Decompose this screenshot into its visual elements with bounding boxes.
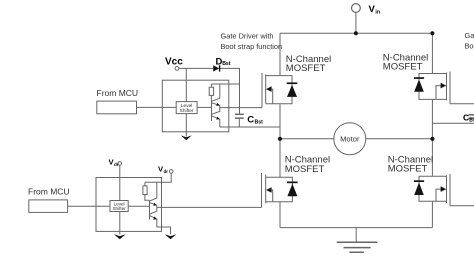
svg-text:Bst: Bst xyxy=(469,118,474,124)
svg-text:Vcc: Vcc xyxy=(165,57,183,68)
level shifter block bottom xyxy=(110,201,128,212)
wire M1 drain xyxy=(279,33,281,75)
MCU box bottom xyxy=(29,200,68,213)
svg-text:Gate Driver with: Gate Driver with xyxy=(465,31,474,40)
wire base bar Q3 Q4 xyxy=(149,200,151,219)
mosfet M4 low side right xyxy=(432,174,450,206)
ground dart driver2 right xyxy=(165,234,177,239)
arrow M3 body xyxy=(266,187,272,193)
svg-text:Shifter: Shifter xyxy=(180,108,194,114)
svg-text:From MCU: From MCU xyxy=(28,187,70,197)
wire M4 drain xyxy=(431,139,433,177)
wire MCU2 to level shifter xyxy=(68,205,110,207)
wire M4 gate lead xyxy=(450,205,474,207)
wire MCU1 to level shifter xyxy=(137,106,177,108)
mosfet M2 high side right xyxy=(432,72,450,104)
resistor R2 xyxy=(143,182,150,200)
wire M3 drain xyxy=(279,139,281,178)
motor xyxy=(334,123,366,155)
wire DBst cathode to bootstrap xyxy=(220,68,240,113)
wire M2 gate lead xyxy=(450,103,474,105)
svg-text:Boot strap function: Boot strap function xyxy=(221,42,283,51)
arrow Q1 emitter xyxy=(216,103,220,106)
transistor Q1 xyxy=(212,84,220,108)
junction switch node right xyxy=(430,137,434,141)
junction top right xyxy=(430,31,434,35)
diode DBst symbol xyxy=(213,65,220,71)
wire driver supply rail xyxy=(211,83,239,85)
level shifter block xyxy=(176,102,197,114)
wire driver 2 output to M3 gate xyxy=(157,206,262,208)
terminal Vcc xyxy=(175,67,179,71)
terminal Vdr2 xyxy=(169,170,173,174)
wire Vdr2 feed xyxy=(145,173,171,182)
wire CBst right bottom xyxy=(432,122,474,124)
body diode M4 xyxy=(419,176,432,201)
wire ground stem xyxy=(355,228,357,243)
diode triangle M4 xyxy=(414,180,424,195)
capacitor CBst right partial xyxy=(469,115,474,118)
wire M1 source to switch node xyxy=(279,104,281,139)
svg-text:MOSFET: MOSFET xyxy=(383,61,423,72)
ground dart driver1 xyxy=(181,135,192,140)
gate driver box left xyxy=(162,80,229,132)
arrow M2 body xyxy=(441,83,447,89)
wire motor right xyxy=(366,138,433,140)
transistor Q3 xyxy=(150,182,157,207)
ground earth symbol xyxy=(337,242,378,252)
resistor R1 xyxy=(209,84,213,101)
junction top center xyxy=(354,31,358,35)
arrow Q2 emitter xyxy=(216,117,220,120)
svg-text:MOSFET: MOSFET xyxy=(388,164,428,175)
svg-text:Bst: Bst xyxy=(255,119,264,125)
gate driver box bottom xyxy=(96,178,162,232)
wire level shifter 2 ground xyxy=(119,212,121,235)
svg-text:dr: dr xyxy=(164,169,169,174)
svg-text:Gate Driver with: Gate Driver with xyxy=(221,32,274,41)
wire M3 source xyxy=(279,202,281,228)
terminal Vdr1 xyxy=(118,162,122,166)
wire level shifter 2 output xyxy=(128,205,149,207)
wire Vdr1 to level shifter xyxy=(119,165,121,200)
svg-text:Boot strap function: Boot strap function xyxy=(465,41,474,50)
svg-text:Shifter: Shifter xyxy=(112,206,126,211)
MCU box top xyxy=(97,101,137,114)
arrow Q4 emitter xyxy=(153,216,157,219)
svg-text:C: C xyxy=(463,112,469,122)
svg-text:dr: dr xyxy=(114,162,119,167)
wire M2 drain xyxy=(431,33,433,73)
diode triangle M3 xyxy=(287,182,298,197)
capacitor CBst xyxy=(235,114,244,127)
svg-text:Bst: Bst xyxy=(222,61,231,67)
arrow Q3 emitter xyxy=(153,203,157,206)
body diode M2 xyxy=(419,74,432,100)
ground dart driver2 left xyxy=(114,234,126,239)
svg-text:in: in xyxy=(375,10,380,16)
terminal Vin xyxy=(352,4,361,13)
mosfet M3 low side left xyxy=(262,173,281,207)
body diode M3 xyxy=(280,177,292,202)
wire motor left xyxy=(280,138,334,140)
svg-text:Motor: Motor xyxy=(340,135,360,144)
wire Q2 emitter to switch node xyxy=(220,126,280,128)
arrow M1 body xyxy=(266,86,272,92)
wire level shifter ground xyxy=(185,114,187,137)
wire top rail xyxy=(280,32,432,34)
wire M4 source xyxy=(431,201,433,227)
body diode M1 xyxy=(280,76,292,104)
diode triangle M1 xyxy=(287,82,298,97)
svg-text:C: C xyxy=(247,114,254,125)
wire bottom rail xyxy=(280,227,432,229)
diode triangle M2 xyxy=(414,77,424,92)
transistor Q2 xyxy=(212,108,220,127)
wire driver output to M1 gate xyxy=(220,107,262,109)
wire M2 source to switch node xyxy=(431,99,433,138)
svg-text:MOSFET: MOSFET xyxy=(285,164,325,175)
wire base bar Q1 Q2 xyxy=(211,100,213,121)
transistor Q4 xyxy=(150,207,171,234)
wire Vin stem xyxy=(355,13,357,34)
mosfet M1 high side left xyxy=(262,73,280,108)
svg-text:From MCU: From MCU xyxy=(97,88,139,98)
junction switch node left xyxy=(278,137,282,141)
wire level shifter output xyxy=(197,106,211,108)
arrow M4 body xyxy=(441,186,447,192)
svg-text:MOSFET: MOSFET xyxy=(286,63,326,74)
wire Vcc node xyxy=(179,68,213,101)
